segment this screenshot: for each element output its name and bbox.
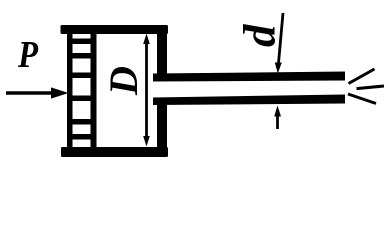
force arrow P shaft: [6, 91, 54, 95]
jet spray middle stroke: [357, 86, 385, 89]
svg-text:D: D: [101, 66, 146, 96]
cylinder top wall: [61, 25, 169, 34]
piston ring 4: [67, 96, 97, 102]
dimension d lower arrowhead: [274, 106, 281, 117]
dimension D bottom arrowhead: [143, 136, 150, 147]
nozzle tube bottom wall: [153, 95, 345, 106]
svg-text:d: d: [235, 23, 285, 47]
piston ring 6: [67, 134, 97, 140]
dimension D top arrowhead: [143, 34, 150, 45]
jet spray lower stroke: [348, 94, 376, 104]
svg-text:P: P: [17, 34, 39, 76]
piston ring 3: [67, 73, 97, 79]
piston ring 1: [67, 39, 97, 45]
cylinder right wall lower segment: [157, 98, 167, 156]
dimension d lower line: [276, 114, 279, 129]
force arrow P head: [51, 87, 69, 98]
cylinder right wall upper segment: [157, 26, 167, 81]
cylinder bottom wall: [61, 147, 168, 157]
piston ring 5: [67, 119, 97, 125]
jet spray upper stroke: [349, 69, 375, 84]
dimension d upper line: [279, 13, 284, 63]
piston left edge: [67, 33, 73, 147]
nozzle tube top wall: [153, 72, 345, 82]
piston ring 2: [67, 53, 97, 59]
dimension D line: [145, 38, 148, 142]
piston right edge: [91, 33, 97, 147]
dimension d upper arrowhead: [275, 63, 282, 74]
